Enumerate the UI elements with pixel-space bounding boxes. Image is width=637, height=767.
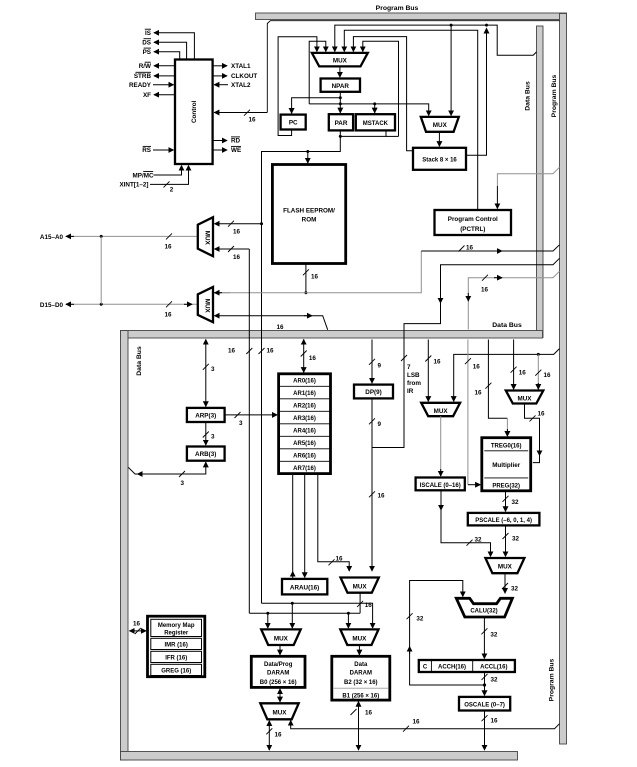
slash 32 on U11 output bbox=[502, 583, 519, 593]
svg-text:Data Bus: Data Bus bbox=[492, 322, 522, 329]
svg-text:ACCL(16): ACCL(16) bbox=[480, 665, 507, 671]
svg-text:B0 (256 × 16): B0 (256 × 16) bbox=[260, 680, 297, 686]
svg-text:16: 16 bbox=[277, 324, 285, 331]
arrowhead on program-data transfer toward program bus bbox=[494, 277, 502, 279]
svg-text:MP/MC: MP/MC bbox=[133, 172, 154, 179]
svg-text:IFR (16): IFR (16) bbox=[165, 655, 187, 661]
memory B2/B1: Data DARAM bbox=[332, 656, 390, 700]
memory FLASH EEPROM / ROM bbox=[272, 165, 345, 264]
bus: Program Bus right vertical bar bbox=[560, 14, 567, 745]
wire tie between external address and data lines bbox=[100, 236, 102, 304]
wire program address into FLASH top bbox=[307, 152, 309, 164]
wire WE out bbox=[213, 149, 227, 151]
junction on data bus line from stack bbox=[485, 24, 488, 27]
arrowhead D15-D0 into data mux bbox=[184, 303, 192, 305]
wire XINT into Control bottom, 2 wide bbox=[150, 166, 189, 185]
wire PS to Control top bbox=[154, 52, 180, 60]
svg-text:PS: PS bbox=[143, 49, 151, 56]
svg-text:16: 16 bbox=[544, 372, 552, 379]
slash 16 on data bus bbox=[165, 301, 173, 318]
slash 16 on address mux bottom input bbox=[228, 246, 241, 261]
wire data-side address vertical run bbox=[248, 249, 250, 613]
arrowhead A15-A0 bbox=[66, 235, 74, 237]
svg-text:MUX: MUX bbox=[273, 710, 288, 717]
wire CALU output to accumulator, 32 bbox=[483, 617, 485, 659]
wire PC output to mux U1 input 1 bbox=[278, 37, 317, 136]
svg-text:ROM: ROM bbox=[302, 217, 317, 224]
slash 32 on ISCALE output bbox=[467, 537, 483, 546]
svg-text:16: 16 bbox=[466, 245, 474, 252]
wire PAR output down-left to program address net bbox=[262, 130, 341, 603]
label 7 LSB from IR bbox=[407, 364, 421, 395]
pin label PS (active low) bbox=[143, 48, 151, 56]
svg-text:TREG0(16): TREG0(16) bbox=[491, 444, 522, 450]
mux U6 (B0 address mux) bbox=[261, 629, 301, 645]
wire program bus to IR LSB line (to DP area) bbox=[372, 258, 560, 447]
bus: Program Bus top horizontal bar bbox=[256, 13, 567, 20]
svg-text:16: 16 bbox=[538, 411, 546, 418]
svg-text:WE: WE bbox=[231, 147, 241, 154]
svg-text:3: 3 bbox=[239, 420, 243, 427]
slash 7 on IR LSB line bbox=[401, 355, 407, 361]
svg-text:GREG (16): GREG (16) bbox=[161, 668, 191, 674]
svg-text:Stack 8 × 16: Stack 8 × 16 bbox=[422, 157, 457, 163]
wire data mux lower port to data bus bar, bidirectional bbox=[215, 316, 328, 330]
black arrow segment into PREG left bbox=[468, 484, 480, 486]
wire B0 to bottom mux, bidirectional bbox=[279, 689, 281, 702]
wire U7 output into B2/B1 bbox=[358, 645, 360, 655]
slash 32 on feedback bbox=[407, 613, 424, 622]
arrowhead program read bus into data mux bbox=[215, 292, 223, 294]
junction program address to FLASH bbox=[306, 150, 309, 153]
svg-text:PAR: PAR bbox=[335, 120, 348, 127]
slash 16 on PREG write bbox=[465, 358, 480, 370]
svg-text:16: 16 bbox=[473, 364, 481, 371]
slash 16 on address mux top input bbox=[228, 221, 241, 236]
register MSTACK bbox=[356, 114, 395, 130]
svg-text:MUX: MUX bbox=[353, 584, 368, 591]
register PAR bbox=[329, 114, 353, 130]
wire stack output up to data line bbox=[466, 28, 487, 155]
wire program read bus: FLASH/data mux to program bus bar, 16 bbox=[214, 251, 422, 293]
wire AR file to ARAU mux left input, 16 bbox=[318, 474, 349, 571]
svg-text:R/W: R/W bbox=[139, 63, 151, 70]
pin label STRB (active low) bbox=[134, 72, 152, 80]
svg-text:16: 16 bbox=[309, 355, 317, 362]
svg-text:AR3(16): AR3(16) bbox=[293, 416, 316, 422]
wire ISCALE output to CALU mux, 32 bbox=[441, 490, 491, 556]
wire XTAL2 in bbox=[214, 84, 228, 86]
wire external data bus to data mux bbox=[66, 303, 198, 305]
block TREG0 / Multiplier / PREG bbox=[482, 438, 531, 491]
wire memory map registers to data bus, bidirectional, 16 bbox=[130, 630, 147, 632]
svg-text:LSB: LSB bbox=[407, 372, 420, 379]
wire mux U2 output into stack bbox=[438, 132, 440, 147]
wire direct address (DP+IR) to ARAU mux right input, 16 bbox=[371, 448, 373, 572]
svg-text:16: 16 bbox=[311, 274, 319, 281]
slash 16 on U8 bus bbox=[266, 728, 282, 738]
svg-text:16: 16 bbox=[336, 555, 344, 562]
svg-text:ARB(3): ARB(3) bbox=[195, 451, 216, 458]
slash 16 on OSCALE output bbox=[482, 715, 499, 724]
wire program read bus black segment with arrow to program bus bar bbox=[421, 245, 559, 251]
junction NPAR line / PC line bbox=[339, 96, 342, 99]
slash 2 on XINT wire bbox=[164, 181, 174, 193]
svg-text:MUX: MUX bbox=[352, 635, 367, 642]
svg-text:16: 16 bbox=[165, 312, 173, 319]
svg-text:MUX: MUX bbox=[434, 408, 449, 415]
svg-text:16: 16 bbox=[233, 229, 241, 236]
svg-text:Program Control: Program Control bbox=[448, 216, 498, 223]
slash 16 on TREG mux left input bbox=[511, 367, 527, 377]
svg-text:16: 16 bbox=[378, 493, 386, 500]
svg-text:NPAR: NPAR bbox=[332, 83, 350, 90]
slash 9 on DP input bbox=[369, 359, 382, 370]
block ISCALE (0-16) bbox=[416, 478, 465, 491]
wire ARB port to data bus, 3 bbox=[128, 462, 206, 474]
svg-text:16: 16 bbox=[249, 117, 257, 124]
junction NPAR line / MSTACK line bbox=[339, 102, 342, 105]
register DP(9) bbox=[354, 385, 393, 399]
svg-text:PSCALE (–6, 0, 1, 4): PSCALE (–6, 0, 1, 4) bbox=[475, 518, 532, 524]
svg-text:Program Bus: Program Bus bbox=[549, 658, 556, 701]
wire NPAR output down to PAR bbox=[339, 92, 341, 113]
bus: Data Bus right vertical bar bbox=[537, 26, 544, 338]
wire external address bus to address mux bbox=[66, 235, 198, 237]
slash 16 on program address vertical bbox=[259, 348, 275, 355]
svg-text:Data/Prog: Data/Prog bbox=[264, 662, 293, 668]
slash 16 on TREG mux right input bbox=[535, 370, 551, 379]
junction line A to B0 mux bbox=[291, 602, 294, 605]
alu CALU(32) bbox=[456, 598, 512, 617]
svg-text:16: 16 bbox=[165, 244, 173, 251]
arrowhead direction on IR LSB drop bbox=[440, 295, 442, 303]
svg-text:AR5(16): AR5(16) bbox=[293, 441, 316, 447]
svg-text:32: 32 bbox=[416, 616, 424, 623]
svg-text:Register: Register bbox=[164, 631, 189, 637]
svg-text:IMR (16): IMR (16) bbox=[165, 642, 188, 648]
svg-text:B2 (32 × 16): B2 (32 × 16) bbox=[344, 680, 378, 686]
svg-text:MUX: MUX bbox=[203, 299, 210, 314]
svg-text:CLKOUT: CLKOUT bbox=[231, 73, 257, 80]
wire branch line A to B0 mux right input bbox=[291, 603, 293, 628]
junction FLASH output on program read bus bbox=[304, 291, 307, 294]
wire PCTRL input arrow segment bbox=[496, 186, 498, 209]
arrowhead feedback direction up bbox=[409, 647, 411, 655]
slash 9 on DP output bbox=[369, 418, 382, 428]
svg-text:PREG(32): PREG(32) bbox=[492, 484, 520, 490]
slash 16 on bottom program run bbox=[403, 719, 420, 732]
svg-text:16: 16 bbox=[481, 287, 489, 294]
block PSCALE (-6, 0, 1, 4) bbox=[468, 513, 540, 526]
svg-text:ISCALE (0–16): ISCALE (0–16) bbox=[420, 483, 461, 489]
junction operand line to TREG mux bbox=[537, 353, 540, 356]
svg-text:32: 32 bbox=[512, 536, 520, 543]
slash 16 on direct address bbox=[369, 491, 385, 499]
svg-text:RS: RS bbox=[142, 147, 151, 154]
mux U9 (input scaler mux) bbox=[421, 403, 460, 416]
svg-text:RD: RD bbox=[231, 138, 241, 145]
bus: Data Bus left vertical bar bbox=[121, 331, 129, 761]
wire branch line B to B2 mux left input bbox=[347, 613, 349, 628]
svg-text:3: 3 bbox=[181, 480, 185, 487]
arrowhead into TREG0 bbox=[506, 429, 508, 436]
wire data-side address into address mux bottom input bbox=[215, 248, 250, 250]
wire NPAR to PC input bbox=[292, 98, 341, 114]
svg-text:PC: PC bbox=[289, 120, 298, 127]
svg-text:IS: IS bbox=[145, 30, 151, 37]
svg-text:16: 16 bbox=[491, 718, 499, 725]
svg-text:(PCTRL): (PCTRL) bbox=[460, 226, 485, 233]
svg-text:2: 2 bbox=[170, 186, 174, 193]
wire branch into MSTACK top bbox=[374, 104, 376, 113]
wire data bus to ARP, bidirectional, 3 bbox=[205, 340, 207, 407]
arrowhead into TREG mux right input bbox=[537, 383, 539, 389]
slash 16 on U5 output bbox=[357, 601, 372, 609]
wire ACC feedback to CALU left input, 32 bbox=[410, 581, 485, 686]
slash 32 on PSCALE output bbox=[503, 533, 520, 543]
wire branch line B to B0 mux left input bbox=[267, 613, 269, 628]
wire data bus to DP, 9 bbox=[371, 340, 373, 384]
wire IS to Control top bbox=[154, 33, 194, 60]
arrow into data mux top input bbox=[215, 292, 231, 294]
wire data bus to TREG mux left input, 16 bbox=[513, 340, 515, 390]
junction on data bus line to stack mux bbox=[450, 24, 453, 27]
svg-text:16: 16 bbox=[267, 348, 275, 355]
slash 3 on ARB line bbox=[179, 471, 185, 487]
slash 16 on left vertical (data-side address) bbox=[228, 348, 252, 355]
slash 32 on CALU output bbox=[481, 628, 498, 638]
wire data bus to TREG0 write, 16 bbox=[488, 340, 507, 419]
pin label RD (active low) bbox=[231, 137, 241, 145]
pin label DS (active low) bbox=[142, 39, 151, 47]
wire U10 output to multiplier, 16 bbox=[525, 404, 540, 463]
stack memory: Stack 8 x 16 bbox=[413, 148, 466, 170]
junction acc output / feedback / OSCALE bbox=[483, 683, 486, 686]
slash 16 on AR to mux bbox=[329, 555, 344, 565]
slash 16 on program read bus bbox=[459, 245, 474, 252]
svg-text:AR7(16): AR7(16) bbox=[293, 466, 316, 472]
svg-text:XINT[1–2]: XINT[1–2] bbox=[119, 182, 148, 189]
control block U-CTRL bbox=[175, 60, 213, 165]
slash 16 on MMR bus bbox=[133, 621, 141, 635]
svg-text:AR6(16): AR6(16) bbox=[293, 454, 316, 460]
svg-text:MUX: MUX bbox=[203, 231, 210, 246]
svg-text:XTAL2: XTAL2 bbox=[231, 82, 251, 89]
slash 16 on Control bus bbox=[244, 110, 256, 124]
svg-text:AR2(16): AR2(16) bbox=[293, 404, 316, 410]
wire PAR/MSTACK line to mux U1 input 6 bbox=[363, 41, 399, 136]
wire MP/MC into Control bottom bbox=[154, 166, 182, 176]
svg-text:B1 (256 × 16): B1 (256 × 16) bbox=[342, 694, 379, 700]
junction data line tie bbox=[100, 303, 103, 306]
mux U5 (data memory address mux) bbox=[341, 578, 379, 593]
arrowhead D15-D0 out bbox=[66, 303, 74, 305]
junction line B to B2 mux bbox=[347, 612, 350, 615]
slash 32 on PREG output bbox=[503, 496, 520, 506]
junction program address line at address mux bbox=[260, 222, 263, 225]
wire RD out bbox=[213, 140, 227, 142]
arrowhead on program-data transfer down to data bus bbox=[467, 293, 469, 301]
wire ARP to ARB, 3 bbox=[205, 422, 207, 445]
register file AR0-AR7 bbox=[279, 374, 331, 474]
svg-text:32: 32 bbox=[491, 677, 499, 684]
wire program bus to operand line bbox=[454, 349, 560, 402]
wire B1 to bottom data bus, bidirectional, 16 bbox=[358, 702, 360, 750]
wire MSTACK/PAR line to mux U1 in6 riser bbox=[386, 135, 399, 137]
slash 3 on ARP bus bbox=[203, 364, 215, 373]
wire NPAR to MSTACK and stack mux U2 left input bbox=[309, 104, 429, 116]
wire U11 output to CALU, 32 bbox=[504, 573, 506, 593]
wire U8 to bottom data bus, bidirectional, 16 bbox=[268, 721, 270, 750]
pin label IS (active low) bbox=[145, 29, 151, 37]
svg-text:CALU(32): CALU(32) bbox=[470, 609, 497, 615]
svg-text:DARAM: DARAM bbox=[350, 671, 372, 677]
slash 16 on address bus bbox=[165, 233, 173, 250]
svg-text:MUX: MUX bbox=[498, 564, 513, 571]
wire: 16-bit bus into Control right side bbox=[214, 112, 267, 114]
wire program bus bottom run to U8 right port, 16 bbox=[291, 721, 560, 729]
wire XF bbox=[154, 94, 175, 96]
wire CLKOUT out bbox=[213, 75, 227, 77]
mux U4 (data mux) bbox=[198, 287, 213, 322]
svg-text:READY: READY bbox=[129, 82, 152, 89]
svg-text:3: 3 bbox=[211, 434, 215, 441]
svg-text:16: 16 bbox=[365, 710, 373, 717]
wire PCTRL line to mux U1 input 4 bbox=[344, 30, 477, 210]
wire: program bus thin line under top bar to right program bus bar bbox=[267, 21, 559, 113]
memory B0: Data/Prog DARAM bbox=[251, 656, 305, 687]
svg-text:16: 16 bbox=[413, 719, 421, 726]
svg-text:AR0(16): AR0(16) bbox=[293, 379, 316, 385]
wire STRB bbox=[154, 75, 175, 77]
svg-text:Data Bus: Data Bus bbox=[525, 81, 532, 111]
mux U8 (B0 data mux) bbox=[260, 703, 298, 719]
svg-text:16: 16 bbox=[474, 390, 482, 397]
svg-text:16: 16 bbox=[434, 359, 442, 366]
block Program Control (PCTRL) bbox=[435, 210, 512, 235]
svg-text:AR1(16): AR1(16) bbox=[293, 391, 316, 397]
wire stack output to mux U1 input 5 bbox=[353, 37, 413, 151]
svg-text:Data Bus: Data Bus bbox=[136, 346, 143, 376]
slash 32 on acc output bbox=[482, 674, 499, 684]
svg-text:ACCH(16): ACCH(16) bbox=[438, 665, 466, 671]
svg-text:MUX: MUX bbox=[274, 635, 289, 642]
svg-text:MUX: MUX bbox=[518, 396, 533, 403]
block Memory Map Register / IMR / IFR / GREG bbox=[148, 616, 205, 677]
svg-text:A15–A0: A15–A0 bbox=[40, 234, 64, 241]
mux U1 (program address mux) bbox=[312, 53, 368, 67]
wire ARAU writeback up to AR file bbox=[292, 474, 294, 578]
arrowhead ARB line toward bus bbox=[138, 473, 146, 475]
pin label RS (active low) bbox=[142, 146, 151, 154]
register ARB(3) bbox=[187, 447, 225, 461]
bus: bottom data bus bar bbox=[121, 752, 518, 761]
svg-text:MSTACK: MSTACK bbox=[363, 121, 389, 127]
svg-text:16: 16 bbox=[519, 370, 527, 377]
svg-text:16: 16 bbox=[228, 348, 236, 355]
svg-text:16: 16 bbox=[133, 621, 141, 628]
mux U2 (stack mux) bbox=[421, 117, 459, 132]
wire line A: program address to memory muxes bbox=[262, 603, 373, 628]
svg-text:9: 9 bbox=[378, 363, 382, 370]
slash 16 on FLASH output bbox=[303, 269, 319, 280]
mux U3 (address mux) bbox=[198, 217, 213, 256]
pin label WE (active low) bbox=[231, 146, 241, 154]
svg-text:32: 32 bbox=[511, 586, 519, 593]
svg-text:ARP(3): ARP(3) bbox=[195, 413, 216, 420]
wire U9 output to ISCALE bbox=[440, 416, 442, 476]
gray segment into TREG0 top bbox=[506, 418, 508, 431]
svg-text:STRB: STRB bbox=[134, 73, 152, 80]
wire data bus to ISCALE mux left input, 16 bbox=[427, 340, 429, 402]
wire accumulator output, 32 bbox=[484, 672, 486, 685]
wire program bus to PCTRL instruction input bbox=[497, 167, 559, 186]
arrowhead data mux lower port toward bus bbox=[304, 315, 312, 317]
svg-text:MUX: MUX bbox=[333, 58, 348, 65]
unit ARAU(16) bbox=[282, 579, 327, 595]
svg-text:Program Bus: Program Bus bbox=[376, 5, 419, 12]
wire program bus transfer to data bus bar, 16 bbox=[468, 271, 559, 329]
svg-text:DS: DS bbox=[142, 40, 151, 47]
slash 16 on AR file bus bbox=[301, 351, 317, 363]
svg-text:IR: IR bbox=[407, 388, 414, 395]
wire READY into Control bbox=[153, 84, 174, 86]
slash 3 on ARP to AR bbox=[235, 412, 244, 427]
svg-text:3: 3 bbox=[211, 366, 215, 373]
wire R/W bbox=[154, 65, 175, 67]
wire AR file down to ARAU bbox=[304, 474, 306, 578]
svg-text:ARAU(16): ARAU(16) bbox=[290, 585, 319, 592]
junction address/data tie bbox=[100, 235, 103, 238]
register PC bbox=[281, 115, 306, 130]
svg-text:MUX: MUX bbox=[433, 122, 448, 129]
svg-text:AR4(16): AR4(16) bbox=[293, 429, 316, 435]
wire data bus line to mux U1 input 3, stack mux input and DB bar bbox=[335, 25, 537, 55]
svg-text:DP(9): DP(9) bbox=[365, 389, 381, 396]
junction PAR/MSTACK bbox=[339, 135, 342, 138]
slash 16 on program-data transfer bbox=[481, 275, 489, 294]
pin label R/W (write active low) bbox=[139, 62, 151, 70]
wire NPAR feedback to mux U1 input 2 bbox=[309, 41, 326, 104]
wire mux U5 output to line B bbox=[359, 593, 361, 614]
wire FLASH data output bbox=[305, 264, 307, 293]
arrowhead U10 output direction bbox=[539, 448, 541, 456]
slash 16 on TREG0 write bbox=[474, 383, 491, 397]
register ARP(3) bbox=[187, 408, 225, 422]
arrowhead U9 output into ISCALE bbox=[440, 469, 442, 476]
wire DP output, 9 bbox=[371, 398, 373, 447]
mux U10 (TREG mux) bbox=[506, 391, 544, 404]
register NPAR bbox=[321, 79, 360, 92]
wire OSCALE output to bottom data bus, 16 bbox=[484, 711, 486, 751]
svg-text:Program Bus: Program Bus bbox=[551, 74, 558, 117]
svg-text:XF: XF bbox=[143, 92, 151, 99]
wire ARP to AR file, 3 bbox=[225, 414, 278, 416]
mux U7 (B2/B1 address mux) bbox=[340, 629, 378, 645]
svg-text:16: 16 bbox=[275, 732, 283, 739]
wire operand branch to TREG mux right input, 16 bbox=[537, 354, 539, 390]
svg-text:XTAL1: XTAL1 bbox=[231, 63, 251, 70]
wire acc output to OSCALE bbox=[484, 685, 486, 695]
wire PSCALE output to CALU mux, 32 bbox=[505, 525, 507, 556]
wire mux U1 output to NPAR bbox=[339, 66, 341, 77]
wire XTAL1 out bbox=[213, 65, 227, 67]
svg-text:7: 7 bbox=[407, 364, 411, 371]
svg-text:Memory Map: Memory Map bbox=[158, 623, 195, 629]
slash 16 on ISCALE mux left input bbox=[425, 356, 441, 366]
svg-text:32: 32 bbox=[475, 537, 483, 544]
